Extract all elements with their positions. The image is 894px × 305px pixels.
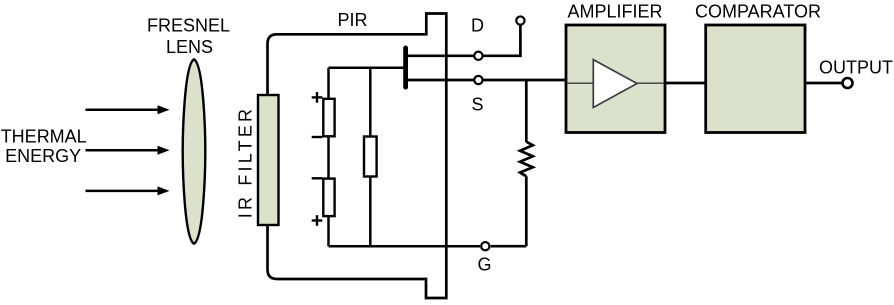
- pyro element 2 (capacitor-like, bottom): [323, 179, 334, 217]
- pyro element 1 (capacitor-like, top): [323, 99, 334, 137]
- wire: drain to top pin: [483, 25, 521, 56]
- svg-text:FRESNEL: FRESNEL: [147, 15, 230, 35]
- wire: amplifier to comparator: [665, 82, 706, 85]
- resistor (zigzag, source load): [520, 142, 533, 177]
- polarity + (element 2 bottom): [312, 215, 323, 226]
- label THERMAL ENERGY: [1, 127, 87, 167]
- svg-text:THERMAL: THERMAL: [1, 127, 87, 147]
- wire: middle column (internal resistor branch): [369, 68, 372, 247]
- terminal circle OUTPUT: [843, 78, 853, 88]
- svg-text:G: G: [477, 255, 491, 275]
- terminal circle D (on drain line): [474, 52, 482, 60]
- op-amp triangle (inside amplifier): [567, 60, 664, 108]
- svg-text:IR FILTER: IR FILTER: [236, 106, 256, 218]
- amplifier box U1: [566, 25, 665, 133]
- fresnel lens (pointed oval): [183, 59, 206, 243]
- internal resistor (box symbol): [364, 137, 377, 177]
- wire: source to amplifier: [483, 79, 566, 82]
- wire: G circle to resistor branch: [491, 245, 527, 248]
- wire: comparator to output: [805, 82, 843, 85]
- svg-text:PIR: PIR: [337, 10, 367, 30]
- svg-text:LENS: LENS: [166, 37, 213, 57]
- wire: source resistor branch (down to zigzag): [525, 80, 528, 142]
- label FRESNEL LENS: [147, 15, 230, 57]
- svg-text:S: S: [471, 95, 483, 115]
- wire: gate/ground line bottom: [329, 245, 481, 248]
- arrow 3 (thermal ray bottom): [86, 186, 170, 195]
- terminal circle S (on source line): [474, 76, 482, 84]
- polarity - (element 1 bottom): [312, 136, 323, 138]
- terminal circle G: [481, 242, 489, 250]
- wire: left column (sensing elements branch): [327, 68, 330, 247]
- arrow 1 (thermal ray top): [86, 105, 170, 114]
- terminal circle (top D pin): [516, 16, 524, 24]
- wire: gate line from elements to FET: [329, 66, 405, 69]
- FET gate bar: [403, 48, 408, 87]
- PIR housing outline (can with tabs): [268, 14, 447, 299]
- svg-text:ENERGY: ENERGY: [5, 146, 81, 166]
- wire: source line: [408, 79, 474, 82]
- wire: drain line: [408, 54, 474, 57]
- IR filter rectangle: [258, 95, 279, 225]
- svg-text:D: D: [471, 16, 484, 36]
- arrow 2 (thermal ray middle): [86, 146, 170, 155]
- comparator box U2: [706, 25, 805, 133]
- polarity + (element 1 top): [312, 92, 323, 103]
- svg-text:OUTPUT: OUTPUT: [819, 58, 893, 78]
- svg-text:COMPARATOR: COMPARATOR: [695, 2, 821, 22]
- polarity - (element 2 top): [312, 177, 323, 179]
- svg-text:AMPLIFIER: AMPLIFIER: [567, 2, 662, 22]
- wire: zigzag to gate line: [525, 176, 528, 246]
